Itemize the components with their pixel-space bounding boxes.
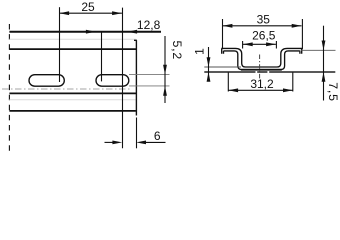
svg-text:6: 6 xyxy=(154,129,161,143)
arrow 7,5 down xyxy=(322,41,326,51)
arrow 12,8 left (on top edge, pointing right) xyxy=(86,30,96,34)
arrow 12,8 right (on top edge, pointing left) xyxy=(127,30,137,34)
profile outer bottom emphasis xyxy=(241,69,282,71)
rail end (right cut) vertical xyxy=(134,40,137,115)
svg-text:35: 35 xyxy=(257,12,271,26)
dimension line 35 xyxy=(223,25,302,27)
dimension line 5,2 (vertical) xyxy=(164,36,166,103)
rail bend line upper xyxy=(9,48,136,50)
svg-text:26,5: 26,5 xyxy=(252,29,276,43)
extension line 7,5 top (from flange underside) xyxy=(301,49,336,51)
svg-text:7,5: 7,5 xyxy=(326,82,340,102)
profile upper skin (flange top / channel inner) xyxy=(221,48,302,67)
extension line C (slot2 left arc center) xyxy=(101,32,103,82)
arrow 31,2 right xyxy=(283,88,293,92)
arrow 7,5 up xyxy=(322,72,326,82)
extension line 35 right xyxy=(301,19,303,49)
extension line A (slot1 center) xyxy=(59,7,61,82)
break line (dashed left edge of rail) xyxy=(8,24,10,152)
extension line 31,2 right xyxy=(292,73,294,92)
rail bend line lower xyxy=(9,92,136,94)
arrow 31,2 left xyxy=(228,88,238,92)
extension line 26,5 left xyxy=(242,41,244,49)
extension line 35 left xyxy=(222,19,224,49)
arrow 1 up xyxy=(207,72,211,82)
rail top edge (also 12,8 dimension line) xyxy=(9,31,161,33)
arrow 35 left xyxy=(223,24,233,28)
extension line 31,2 left xyxy=(227,73,229,92)
slot 2 (oblong hole) xyxy=(96,75,129,87)
extension line B (slot2 center, long) xyxy=(122,8,124,149)
profile bottom extra edge line (broken) xyxy=(204,71,335,73)
extension line 1 upper (gray, channel inner bottom) xyxy=(204,66,241,68)
extension line D (rail end, for 6 dim) xyxy=(136,118,138,149)
slot center line (dash-dot, below slots) xyxy=(2,88,130,90)
arrow 5,2 up xyxy=(163,86,167,96)
slot 1 (oblong hole) xyxy=(29,75,64,87)
rail faint fold line upper xyxy=(9,38,135,40)
arrow 26,5 right xyxy=(266,42,276,46)
arrow 35 right xyxy=(292,24,302,28)
dimension 5,2 extension top (slot top, gray) xyxy=(129,74,170,76)
arrow 25 left xyxy=(59,11,69,15)
arrow 1 down xyxy=(207,57,211,67)
svg-text:12,8: 12,8 xyxy=(137,18,161,32)
dimension line 1 (vertical) xyxy=(208,47,210,82)
rail bottom edge xyxy=(9,110,135,112)
dimension line 25 xyxy=(59,12,122,14)
arrow 25 right xyxy=(112,11,122,15)
dimension line 6 left segment with right arrow xyxy=(105,141,114,143)
dimension line 31,2 xyxy=(228,89,292,91)
rail faint fold line lower xyxy=(9,99,135,101)
dimension line 26,5 xyxy=(243,43,276,45)
profile lower skin (flange bottom / channel outer) xyxy=(224,51,300,70)
section vertical center line (dash-dot) xyxy=(259,55,261,79)
dimension line 6 right segment with left arrow xyxy=(145,141,166,143)
dimension line 7,5 (vertical) xyxy=(323,26,325,101)
arrow 5,2 down xyxy=(163,65,167,75)
svg-text:31,2: 31,2 xyxy=(250,77,274,91)
dimension 5,2 extension bottom (slot bottom, gray) xyxy=(129,85,170,87)
arrow 26,5 left xyxy=(243,42,253,46)
svg-text:25: 25 xyxy=(81,0,95,14)
svg-text:5,2: 5,2 xyxy=(170,41,184,61)
svg-text:1: 1 xyxy=(192,48,206,55)
extension line 26,5 right xyxy=(275,41,277,49)
